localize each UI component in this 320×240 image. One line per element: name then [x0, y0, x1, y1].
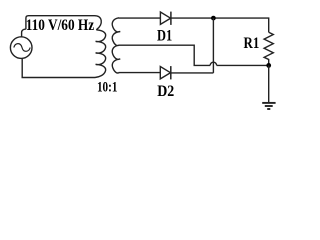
node: D1/D2 junction dot — [211, 16, 216, 21]
wire secondary center tap — [119, 45, 211, 65]
transformer T1 secondary winding — [112, 18, 120, 73]
wire secondary bottom tap to D2 — [119, 72, 161, 74]
wire hop over vertical — [210, 62, 216, 65]
wire ground lead — [268, 65, 270, 102]
diode D1 — [160, 12, 171, 25]
diode D2 — [160, 66, 171, 79]
wire hop to R1 bottom node — [217, 64, 269, 66]
wire transformer bottom to source — [22, 59, 95, 78]
label frame (open box over 110 V/60 Hz) — [26, 16, 101, 30]
ac source V1 — [10, 37, 32, 59]
svg-text:D2: D2 — [157, 83, 174, 100]
node: R1 bottom / ground junction dot — [266, 63, 271, 68]
wire D1 cathode to junction to R1 top — [171, 18, 269, 32]
svg-text:110 V/60 Hz: 110 V/60 Hz — [26, 17, 95, 34]
wire secondary top tap to D1 — [119, 17, 161, 19]
svg-text:R1: R1 — [244, 35, 260, 52]
svg-text:D1: D1 — [157, 27, 172, 44]
resistor R1 zigzag — [264, 32, 273, 65]
wire source top to label frame — [22, 29, 26, 37]
transformer T1 primary winding — [95, 30, 106, 78]
wire D2 cathode up to junction line — [171, 72, 214, 74]
wire junction down to D2 output — [212, 18, 214, 73]
ground symbol — [262, 103, 275, 109]
svg-text:10:1: 10:1 — [97, 79, 117, 95]
